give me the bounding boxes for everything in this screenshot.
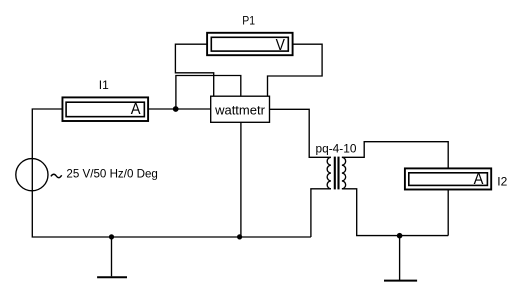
- svg-text:I1: I1: [99, 78, 109, 92]
- svg-text:A: A: [131, 101, 141, 118]
- svg-text:25 V/50 Hz/0 Deg: 25 V/50 Hz/0 Deg: [66, 167, 157, 181]
- svg-text:pq-4-10: pq-4-10: [316, 142, 357, 156]
- svg-text:wattmetr: wattmetr: [214, 103, 266, 118]
- svg-text:I2: I2: [497, 174, 507, 188]
- svg-text:V: V: [276, 37, 286, 54]
- svg-text:A: A: [474, 171, 484, 188]
- svg-text:P1: P1: [242, 14, 255, 28]
